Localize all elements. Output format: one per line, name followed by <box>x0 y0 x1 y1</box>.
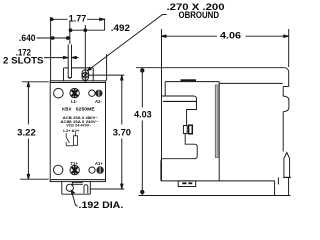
top edge dark vent <box>181 79 197 81</box>
svg-text:OBROUND: OBROUND <box>179 10 220 20</box>
svg-text:.192 DIA.: .192 DIA. <box>79 200 124 210</box>
svg-text:4.06: 4.06 <box>220 31 241 41</box>
top slot (2 SLOTS) <box>68 45 71 79</box>
obround centerline <box>84 25 86 83</box>
side view bottom back step <box>275 177 279 195</box>
screw L1 top <box>70 88 79 97</box>
svg-text:.492: .492 <box>111 23 130 33</box>
svg-text:T1+: T1+ <box>71 161 79 166</box>
screw A1 bottom <box>96 166 103 173</box>
svg-text:L2+ A2+: L2+ A2+ <box>63 129 80 133</box>
side terminal opening 1 <box>183 126 187 134</box>
svg-text:0250ME: 0250ME <box>76 106 95 111</box>
dim 1.77 <box>50 17 104 81</box>
terminal circle top-left <box>54 88 64 98</box>
side view lower back clip <box>283 153 291 196</box>
small circle top <box>89 90 95 96</box>
side view top plate edge <box>136 68 289 87</box>
dim 3.70 <box>89 75 125 189</box>
terminal circle bottom-left <box>54 165 63 174</box>
svg-text:2 SLOTS: 2 SLOTS <box>3 56 44 66</box>
bottom tab bar <box>72 182 83 186</box>
front view body outline <box>50 81 105 182</box>
screw in obround <box>82 72 88 78</box>
side terminal opening 2 <box>189 125 193 134</box>
side view main block outline <box>161 82 283 181</box>
svg-text:3.22: 3.22 <box>17 128 36 138</box>
heatsink seam bar <box>215 85 218 158</box>
body right edge extension <box>106 54 108 81</box>
svg-text:A2-: A2- <box>95 99 102 104</box>
svg-text:4.03: 4.03 <box>134 110 152 120</box>
leader to obround callout <box>88 15 167 71</box>
svg-text:.640: .640 <box>19 33 36 43</box>
side view back edge with DIN clip bump <box>283 87 289 152</box>
dim .492 <box>69 21 105 45</box>
top mounting tab <box>64 68 94 81</box>
dim 3.22 <box>20 82 49 179</box>
svg-text:VCD 24-470V~: VCD 24-470V~ <box>66 123 91 127</box>
screw T1 bottom <box>70 165 79 174</box>
bottom long extension line <box>139 195 291 197</box>
screw A2 top <box>95 90 102 97</box>
side view bottom foot <box>178 181 196 187</box>
svg-text:3.70: 3.70 <box>113 128 131 138</box>
coil symbol on label <box>66 132 77 145</box>
bottom mounting tab <box>62 182 91 195</box>
dim 4.06 <box>161 29 289 181</box>
svg-text:A1+: A1+ <box>95 161 103 166</box>
dim .172 arrows <box>44 56 79 58</box>
svg-text:1.77: 1.77 <box>69 13 87 23</box>
small circle bottom <box>89 167 95 173</box>
bottom slot <box>84 185 88 194</box>
svg-text:KBX: KBX <box>62 106 72 111</box>
dim .640 <box>37 37 70 40</box>
obround hole .270 x .200 <box>82 70 89 81</box>
svg-text:L1-: L1- <box>71 99 78 104</box>
leader .192 dia <box>71 190 77 206</box>
dim 4.03 <box>141 68 144 196</box>
bottom hole .192 dia <box>66 184 73 191</box>
